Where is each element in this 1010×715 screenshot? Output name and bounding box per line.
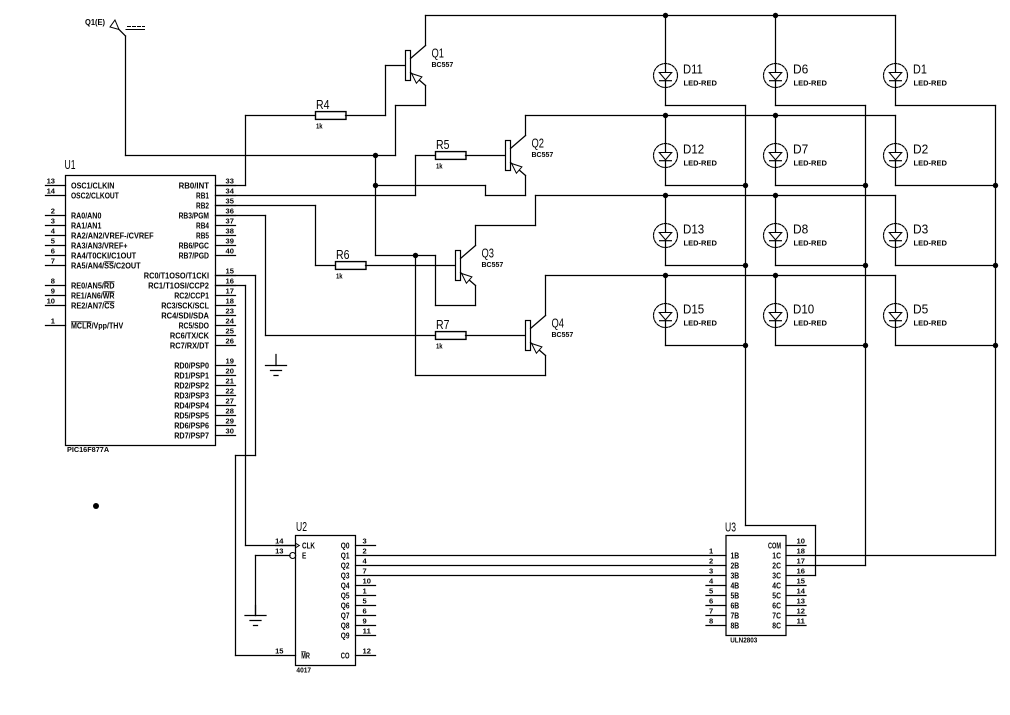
- svg-text:7: 7: [709, 607, 713, 616]
- svg-text:17: 17: [226, 287, 234, 296]
- svg-text:15: 15: [275, 647, 283, 656]
- svg-text:5B: 5B: [731, 591, 740, 600]
- svg-text:RC7/RX/DT: RC7/RX/DT: [170, 341, 209, 350]
- svg-text:D11: D11: [683, 63, 703, 77]
- svg-text:Q2: Q2: [341, 561, 350, 570]
- svg-text:RE1/AN6/WR: RE1/AN6/WR: [71, 291, 115, 300]
- svg-text:R6: R6: [336, 248, 350, 262]
- svg-text:1k: 1k: [336, 272, 343, 281]
- svg-text:2: 2: [363, 547, 367, 556]
- svg-text:LED-RED: LED-RED: [684, 79, 717, 88]
- svg-text:13: 13: [275, 547, 283, 556]
- svg-text:6B: 6B: [731, 601, 740, 610]
- svg-text:RD2/PSP2: RD2/PSP2: [174, 381, 209, 390]
- svg-text:RB6/PGC: RB6/PGC: [179, 241, 209, 250]
- svg-text:RD1/PSP1: RD1/PSP1: [174, 371, 209, 380]
- svg-text:R7: R7: [436, 318, 450, 332]
- svg-text:E: E: [302, 551, 307, 560]
- svg-text:16: 16: [797, 567, 805, 576]
- svg-text:5C: 5C: [772, 591, 781, 600]
- svg-text:27: 27: [226, 397, 234, 406]
- svg-text:18: 18: [226, 297, 234, 306]
- svg-text:D7: D7: [793, 143, 808, 157]
- svg-text:R4: R4: [316, 98, 330, 112]
- svg-text:5: 5: [709, 587, 713, 596]
- svg-text:4C: 4C: [772, 581, 781, 590]
- svg-text:Q0: Q0: [341, 541, 350, 550]
- svg-text:U3: U3: [725, 521, 736, 535]
- svg-text:3C: 3C: [772, 571, 781, 580]
- svg-text:24: 24: [226, 317, 235, 326]
- svg-text:LED-RED: LED-RED: [794, 79, 827, 88]
- svg-text:3: 3: [363, 537, 367, 546]
- svg-text:34: 34: [226, 187, 235, 196]
- svg-text:7C: 7C: [772, 611, 781, 620]
- svg-text:MR: MR: [301, 651, 310, 660]
- svg-text:D2: D2: [913, 143, 928, 157]
- svg-text:RC1/T1OSI/CCP2: RC1/T1OSI/CCP2: [148, 281, 209, 290]
- svg-text:RE0/AN5/RD: RE0/AN5/RD: [71, 281, 115, 290]
- svg-text:22: 22: [226, 387, 234, 396]
- svg-text:16: 16: [226, 277, 234, 286]
- svg-text:LED-RED: LED-RED: [684, 159, 717, 168]
- svg-text:15: 15: [226, 267, 234, 276]
- svg-text:29: 29: [226, 417, 234, 426]
- svg-text:RD6/PSP6: RD6/PSP6: [174, 421, 209, 430]
- svg-text:BC557: BC557: [552, 330, 574, 339]
- svg-text:1k: 1k: [436, 162, 443, 171]
- svg-text:RC4/SDI/SDA: RC4/SDI/SDA: [161, 311, 209, 320]
- svg-text:CO: CO: [341, 651, 350, 660]
- svg-text:RC2/CCP1: RC2/CCP1: [174, 291, 209, 300]
- svg-text:RB5: RB5: [196, 231, 209, 240]
- svg-text:COM: COM: [768, 541, 781, 550]
- svg-text:10: 10: [363, 577, 371, 586]
- svg-text:38: 38: [226, 227, 234, 236]
- svg-text:6: 6: [709, 597, 713, 606]
- svg-text:OSC1/CLKIN: OSC1/CLKIN: [71, 181, 115, 190]
- svg-text:Q6: Q6: [341, 601, 350, 610]
- svg-text:9: 9: [363, 617, 367, 626]
- svg-text:23: 23: [226, 307, 234, 316]
- svg-text:PIC16F877A: PIC16F877A: [67, 445, 109, 454]
- svg-text:OSC2/CLKOUT: OSC2/CLKOUT: [71, 191, 119, 200]
- svg-text:RB7/PGD: RB7/PGD: [179, 251, 209, 260]
- svg-text:D12: D12: [683, 143, 704, 157]
- svg-text:30: 30: [226, 427, 234, 436]
- svg-text:LED-RED: LED-RED: [914, 319, 947, 328]
- svg-text:RB3/PGM: RB3/PGM: [179, 211, 210, 220]
- svg-text:Q8: Q8: [341, 621, 350, 630]
- svg-text:1k: 1k: [436, 342, 443, 351]
- svg-text:ULN2803: ULN2803: [730, 636, 757, 645]
- svg-text:Q1: Q1: [432, 47, 445, 61]
- svg-text:8B: 8B: [731, 621, 740, 630]
- svg-text:Q3: Q3: [341, 571, 350, 580]
- svg-text:BC557: BC557: [482, 260, 504, 269]
- svg-text:1C: 1C: [772, 551, 781, 560]
- svg-text:Q3: Q3: [482, 247, 495, 261]
- svg-text:RB4: RB4: [196, 221, 209, 230]
- svg-text:D5: D5: [913, 303, 928, 317]
- svg-text:1B: 1B: [731, 551, 740, 560]
- svg-text:Q5: Q5: [341, 591, 350, 600]
- svg-text:13: 13: [47, 177, 55, 186]
- svg-text:Q9: Q9: [341, 631, 350, 640]
- svg-text:RD4/PSP4: RD4/PSP4: [174, 401, 209, 410]
- svg-text:RA4/T0CKI/C1OUT: RA4/T0CKI/C1OUT: [71, 251, 136, 260]
- svg-text:33: 33: [226, 177, 234, 186]
- svg-text:14: 14: [797, 587, 806, 596]
- svg-text:RA1/AN1: RA1/AN1: [71, 221, 102, 230]
- svg-text:10: 10: [797, 537, 805, 546]
- svg-text:8: 8: [51, 277, 55, 286]
- svg-text:RA3/AN3/VREF+: RA3/AN3/VREF+: [71, 241, 128, 250]
- svg-text:8C: 8C: [772, 621, 781, 630]
- svg-text:20: 20: [226, 367, 234, 376]
- svg-text:17: 17: [797, 557, 805, 566]
- svg-text:1: 1: [51, 317, 55, 326]
- svg-text:1: 1: [363, 587, 367, 596]
- svg-text:3B: 3B: [731, 571, 740, 580]
- svg-text:D13: D13: [683, 223, 704, 237]
- svg-text:11: 11: [797, 617, 805, 626]
- svg-text:RC6/TX/CK: RC6/TX/CK: [170, 331, 209, 340]
- svg-text:10: 10: [47, 297, 55, 306]
- svg-text:25: 25: [226, 327, 234, 336]
- svg-text:6: 6: [363, 607, 367, 616]
- svg-text:7B: 7B: [731, 611, 740, 620]
- svg-text:D15: D15: [683, 303, 704, 317]
- svg-text:LED-RED: LED-RED: [794, 319, 827, 328]
- svg-text:1: 1: [709, 547, 713, 556]
- svg-text:12: 12: [797, 607, 805, 616]
- svg-text:3: 3: [709, 567, 713, 576]
- svg-text:12: 12: [363, 647, 371, 656]
- svg-text:Q7: Q7: [341, 611, 350, 620]
- svg-text:Q1(E): Q1(E): [85, 18, 105, 27]
- svg-text:LED-RED: LED-RED: [914, 239, 947, 248]
- svg-text:28: 28: [226, 407, 234, 416]
- svg-text:D8: D8: [793, 223, 808, 237]
- svg-text:3: 3: [51, 217, 55, 226]
- svg-text:Q4: Q4: [341, 581, 350, 590]
- svg-text:9: 9: [51, 287, 55, 296]
- svg-text:RC3/SCK/SCL: RC3/SCK/SCL: [161, 301, 209, 310]
- svg-text:RC0/T1OSO/T1CKI: RC0/T1OSO/T1CKI: [144, 271, 209, 280]
- svg-text:5: 5: [363, 597, 367, 606]
- svg-text:21: 21: [226, 377, 234, 386]
- svg-text:LED-RED: LED-RED: [684, 239, 717, 248]
- svg-text:U1: U1: [65, 158, 76, 172]
- svg-text:18: 18: [797, 547, 805, 556]
- svg-text:36: 36: [226, 207, 234, 216]
- svg-text:RA0/AN0: RA0/AN0: [71, 211, 102, 220]
- svg-text:14: 14: [275, 537, 284, 546]
- svg-text:19: 19: [226, 357, 234, 366]
- svg-text:2: 2: [51, 207, 55, 216]
- svg-text:RB1: RB1: [196, 191, 209, 200]
- svg-text:5: 5: [51, 237, 55, 246]
- svg-text:R5: R5: [436, 138, 450, 152]
- svg-text:6C: 6C: [772, 601, 781, 610]
- svg-text:LED-RED: LED-RED: [794, 159, 827, 168]
- svg-text:Q2: Q2: [532, 137, 545, 151]
- svg-text:LED-RED: LED-RED: [794, 239, 827, 248]
- svg-text:39: 39: [226, 237, 234, 246]
- svg-text:RB2: RB2: [196, 201, 209, 210]
- svg-text:8: 8: [709, 617, 713, 626]
- svg-text:37: 37: [226, 217, 234, 226]
- svg-text:BC557: BC557: [532, 150, 554, 159]
- svg-text:RA2/AN2/VREF-/CVREF: RA2/AN2/VREF-/CVREF: [71, 231, 154, 240]
- svg-text:D1: D1: [913, 63, 927, 77]
- svg-text:2: 2: [709, 557, 713, 566]
- svg-text:LED-RED: LED-RED: [684, 319, 717, 328]
- svg-text:13: 13: [797, 597, 805, 606]
- svg-text:40: 40: [226, 247, 234, 256]
- svg-text:1k: 1k: [316, 122, 323, 131]
- svg-text:D6: D6: [793, 63, 808, 77]
- svg-text:Q1: Q1: [341, 551, 350, 560]
- svg-text:RD5/PSP5: RD5/PSP5: [174, 411, 209, 420]
- svg-text:7: 7: [51, 257, 55, 266]
- svg-text:D10: D10: [793, 303, 814, 317]
- svg-text:15: 15: [797, 577, 805, 586]
- svg-text:RA5/AN4/SS/C2OUT: RA5/AN4/SS/C2OUT: [71, 261, 141, 270]
- svg-text:LED-RED: LED-RED: [914, 79, 947, 88]
- svg-text:U2: U2: [296, 520, 307, 534]
- svg-text:11: 11: [363, 627, 371, 636]
- svg-text:6: 6: [51, 247, 55, 256]
- svg-text:CLK: CLK: [302, 541, 315, 550]
- svg-text:4017: 4017: [296, 666, 311, 675]
- svg-text:BC557: BC557: [432, 60, 454, 69]
- svg-text:14: 14: [47, 187, 56, 196]
- svg-text:MCLR/Vpp/THV: MCLR/Vpp/THV: [71, 321, 124, 330]
- svg-text:2C: 2C: [772, 561, 781, 570]
- svg-text:RB0/INT: RB0/INT: [179, 181, 209, 190]
- svg-text:RD7/PSP7: RD7/PSP7: [174, 431, 209, 440]
- svg-text:RD0/PSP0: RD0/PSP0: [174, 361, 209, 370]
- svg-text:2B: 2B: [731, 561, 740, 570]
- svg-text:RE2/AN7/CS: RE2/AN7/CS: [71, 301, 115, 310]
- svg-text:Q4: Q4: [552, 317, 565, 331]
- svg-text:LED-RED: LED-RED: [914, 159, 947, 168]
- svg-text:D3: D3: [913, 223, 928, 237]
- svg-text:35: 35: [226, 197, 234, 206]
- svg-text:RD3/PSP3: RD3/PSP3: [174, 391, 209, 400]
- svg-text:RC5/SDO: RC5/SDO: [179, 321, 210, 330]
- svg-text:7: 7: [363, 567, 367, 576]
- svg-text:4B: 4B: [731, 581, 740, 590]
- svg-text:26: 26: [226, 337, 234, 346]
